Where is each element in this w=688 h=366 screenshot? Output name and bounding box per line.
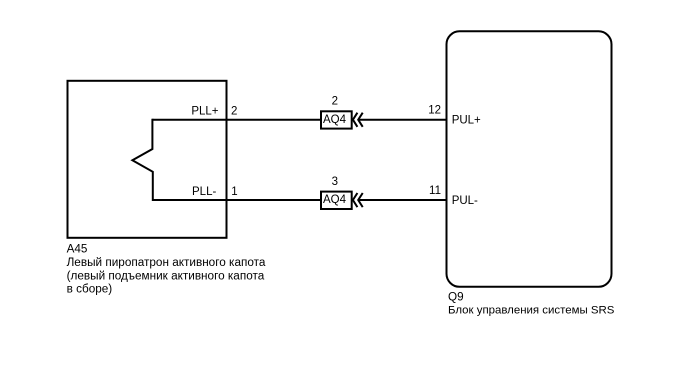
svg-text:AQ4: AQ4	[323, 114, 347, 126]
wire PLL- (pin 1) from squib through box edge to connector AQ4	[153, 199, 321, 201]
svg-text:1: 1	[231, 186, 237, 198]
component box A45 (left squib box)	[68, 81, 227, 238]
svg-text:2: 2	[231, 105, 237, 117]
svg-text:Блок управления системы SRS: Блок управления системы SRS	[448, 304, 615, 316]
connector AQ4 box (bottom)	[321, 192, 352, 209]
svg-text:2: 2	[332, 96, 338, 108]
svg-text:Q9: Q9	[448, 290, 464, 303]
svg-text:в сборе): в сборе)	[67, 283, 113, 296]
connector chevron 2 (top)	[358, 113, 363, 127]
svg-text:(левый подъемник активного кап: (левый подъемник активного капота	[67, 269, 265, 282]
SRS control unit box Q9 (rounded)	[447, 31, 612, 286]
connector chevron 2 (bottom)	[358, 193, 363, 207]
svg-text:A45: A45	[67, 242, 88, 255]
connector AQ4 box (top)	[321, 111, 352, 128]
svg-text:PLL+: PLL+	[191, 105, 218, 117]
svg-text:Левый пиропатрон активного кап: Левый пиропатрон активного капота	[67, 256, 266, 269]
wire from bottom connector to SRS unit pin 11	[358, 199, 446, 201]
svg-text:PUL-: PUL-	[452, 195, 478, 207]
svg-text:PUL+: PUL+	[452, 114, 481, 126]
svg-text:12: 12	[428, 105, 441, 117]
squib igniter symbol inside A45	[132, 119, 152, 201]
svg-text:PLL-: PLL-	[192, 186, 216, 198]
wire PLL+ (pin 2) from squib through box edge to connector AQ4	[152, 119, 321, 121]
svg-text:11: 11	[429, 185, 441, 197]
wire from top connector to SRS unit pin 12	[358, 119, 446, 121]
connector chevron 1 (top)	[353, 113, 358, 127]
svg-text:3: 3	[332, 176, 338, 188]
connector chevron 1 (bottom)	[353, 193, 358, 207]
svg-text:AQ4: AQ4	[323, 194, 347, 206]
